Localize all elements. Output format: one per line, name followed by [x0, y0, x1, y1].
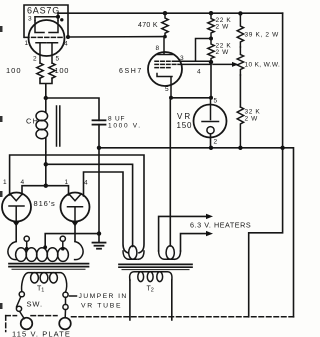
- transformer T1 HV secondary: [8, 242, 83, 262]
- switch blade: [17, 297, 21, 307]
- node HV center tap: [43, 245, 47, 249]
- V1 plate (pin 6, right triode): [49, 17, 58, 33]
- label 32 K 2W: [245, 109, 261, 123]
- V4 plate bar: [9, 206, 24, 222]
- V2 plate lead pin 8: [157, 37, 173, 55]
- svg-text:2 W: 2 W: [216, 49, 230, 56]
- svg-text:3: 3: [28, 16, 32, 23]
- svg-text:2: 2: [33, 56, 37, 63]
- wire divider to VR pin5: [210, 62, 212, 98]
- svg-text:T2: T2: [147, 286, 154, 294]
- V1 plate (pin 3, left triode): [35, 17, 44, 33]
- node grid rail / plate junction: [163, 35, 167, 39]
- node 22K bottom junction: [209, 60, 213, 64]
- T2 core: [119, 264, 192, 269]
- svg-text:4: 4: [84, 180, 88, 187]
- wire jumper to terminal: [64, 310, 66, 318]
- arrow heater bottom: [206, 231, 213, 236]
- tube V4 816 left envelope: [2, 193, 31, 222]
- arrow heater top: [206, 214, 213, 219]
- node plate junction: [56, 15, 60, 19]
- svg-text:32 K: 32 K: [245, 109, 261, 116]
- V5 base wedge: [72, 222, 79, 227]
- node cap bottom: [97, 146, 101, 150]
- T2 primary winding: [130, 272, 172, 282]
- terminal filament tap right: [60, 236, 65, 250]
- V5 filament V: [69, 194, 81, 201]
- wire 10K to 32K: [239, 75, 241, 107]
- svg-text:39 K, 2 W: 39 K, 2 W: [245, 32, 280, 39]
- V4 filament V: [10, 194, 22, 201]
- node right drop rail: [280, 146, 284, 150]
- svg-text:6AS7G: 6AS7G: [27, 6, 60, 16]
- wire cathode resistors junction: [40, 78, 52, 98]
- resistor R2 100 (right cathode): [49, 63, 55, 78]
- svg-text:8: 8: [156, 45, 160, 52]
- V1 cathode left (pin 2): [36, 43, 46, 63]
- V2 grid rows dashed: [155, 61, 177, 67]
- svg-text:6.3 V. HEATERS: 6.3 V. HEATERS: [190, 221, 251, 230]
- resistor R4 22K 2W upper: [208, 13, 214, 38]
- V4 base wedge: [13, 222, 20, 227]
- terminal 115V left: [21, 318, 33, 330]
- wire B+ node to cap: [46, 98, 99, 120]
- svg-text:150: 150: [177, 121, 193, 130]
- node 32K bottom rail: [238, 146, 242, 150]
- wire cap to ground: [98, 148, 100, 243]
- wire switch to terminal: [20, 311, 25, 318]
- resistor R8 32K 2W: [237, 107, 243, 148]
- V3 pin 2 lead: [210, 134, 212, 148]
- svg-text:115 V. PLATE: 115 V. PLATE: [12, 329, 71, 337]
- svg-text:5: 5: [214, 98, 218, 105]
- svg-text:CH: CH: [26, 117, 39, 126]
- node 39K top: [238, 11, 242, 15]
- V1 cathode right (pin 5): [48, 43, 58, 63]
- potentiometer R7 10K WW: [237, 47, 243, 75]
- svg-text:470 K: 470 K: [138, 22, 158, 29]
- wire filament rail (816 pin1): [10, 155, 144, 253]
- svg-text:1: 1: [25, 40, 29, 47]
- scan edge artifacts: [0, 26, 3, 309]
- svg-text:816's: 816's: [34, 199, 56, 208]
- wire heater top lead: [159, 216, 207, 251]
- svg-text:8 UF: 8 UF: [108, 116, 125, 123]
- svg-text:2: 2: [214, 139, 218, 146]
- node 816 filament split: [44, 184, 48, 188]
- tube V2 6SH7 envelope: [148, 52, 182, 86]
- wire choke down lead: [45, 152, 47, 186]
- T1 core: [9, 264, 89, 270]
- node unregulated B: [44, 96, 48, 100]
- terminal 115V right: [59, 318, 71, 330]
- label 8 UF 1000 V: [108, 116, 142, 130]
- tube V1 6AS7G envelope: [29, 20, 65, 56]
- transformer T2 816 filament winding: [123, 246, 144, 260]
- V5 plate lead: [74, 224, 76, 242]
- wire top plate rail: [58, 12, 283, 14]
- svg-text:1: 1: [3, 179, 7, 186]
- V4 plate lead: [15, 224, 17, 242]
- node pin6 entry: [60, 18, 63, 21]
- wire plate tie: [35, 13, 58, 17]
- choke core: [57, 106, 60, 146]
- node 470K top: [163, 11, 167, 15]
- svg-text:5: 5: [165, 86, 169, 93]
- label VR 150: [177, 112, 193, 130]
- terminal filament tap left: [24, 236, 29, 250]
- V3 cathode bar: [202, 121, 219, 123]
- svg-text:4: 4: [21, 179, 25, 186]
- svg-text:4: 4: [197, 69, 201, 76]
- svg-text:3: 3: [180, 55, 184, 62]
- node cathode junction: [169, 96, 173, 100]
- wire pin 4 to divider: [178, 63, 211, 65]
- wire screen tap: [196, 39, 212, 62]
- jumper contacts: [63, 292, 68, 310]
- T1 primary winding: [22, 273, 67, 292]
- wire 816 pin4 heater rail: [84, 172, 129, 253]
- wire cathode to VR: [171, 97, 211, 99]
- wire 816 filament tie: [22, 186, 69, 195]
- V2 cathode: [157, 74, 172, 98]
- node 22K middle junction: [209, 37, 213, 41]
- svg-text:JUMPER IN: JUMPER IN: [79, 293, 128, 300]
- resistor R1 100 (left cathode): [37, 63, 43, 78]
- svg-text:T1: T1: [37, 286, 44, 294]
- wire common rail: [99, 148, 294, 317]
- wire heater bottom lead: [181, 234, 208, 251]
- wire HV center tap: [45, 234, 99, 248]
- svg-text:5: 5: [56, 56, 60, 63]
- resistor R3 470K: [162, 13, 168, 36]
- svg-text:10 K, W.W.: 10 K, W.W.: [245, 62, 281, 69]
- tube V5 816 right envelope: [61, 193, 90, 222]
- wire line cord dashed: [6, 316, 294, 332]
- node VR pin2 rail: [209, 146, 213, 150]
- label 22K 2W lower: [216, 43, 232, 57]
- resistor R6 39K 2W: [237, 13, 243, 47]
- wire T2 primary leads: [130, 280, 172, 320]
- svg-text:SW.: SW.: [27, 300, 43, 309]
- svg-text:1: 1: [65, 179, 69, 186]
- tube V3 VR150 envelope: [194, 105, 227, 138]
- wire pin 3 to divider: [177, 60, 211, 62]
- V5 plate bar: [68, 207, 83, 222]
- label 22K 2W upper: [216, 17, 232, 31]
- resistor R5 22K 2W lower: [208, 39, 214, 63]
- wire wiper arrow: [213, 62, 239, 67]
- svg-text:1000 V.: 1000 V.: [108, 123, 142, 130]
- V1 grids (pins 1,4) dashed: [25, 36, 65, 38]
- capacitor C1 8UF 1000V: [93, 120, 106, 148]
- wire grid rail: [68, 36, 165, 38]
- wire right edge drop: [249, 13, 283, 317]
- node choke / CT rail: [44, 162, 48, 166]
- label JUMPER IN VR TUBE: [79, 293, 128, 310]
- svg-text:100: 100: [55, 66, 70, 75]
- svg-text:4: 4: [64, 41, 68, 48]
- svg-text:100: 100: [6, 66, 22, 75]
- svg-text:VR TUBE: VR TUBE: [81, 302, 122, 309]
- V3 starter dot: [207, 127, 214, 134]
- jumper pointer: [70, 295, 77, 297]
- node 22K top: [209, 11, 213, 15]
- node VR pin5: [209, 96, 213, 100]
- svg-text:2 W: 2 W: [216, 24, 230, 31]
- choke CH: [36, 98, 48, 152]
- ground: [93, 243, 106, 249]
- svg-text:VR: VR: [177, 112, 192, 121]
- tube 6AS7G grid-tie box: [24, 5, 68, 37]
- svg-text:6SH7: 6SH7: [119, 68, 143, 75]
- node ground junction: [97, 231, 101, 235]
- wire cathode to T2 center tap: [169, 98, 171, 246]
- wire B rail to T2 CT: [46, 164, 133, 246]
- switch SW contacts: [16, 292, 24, 312]
- V3 anode lead: [210, 98, 212, 120]
- transformer T2 6.3V heater winding: [159, 246, 181, 260]
- svg-text:2 W: 2 W: [245, 116, 259, 123]
- node grid to box: [66, 35, 70, 39]
